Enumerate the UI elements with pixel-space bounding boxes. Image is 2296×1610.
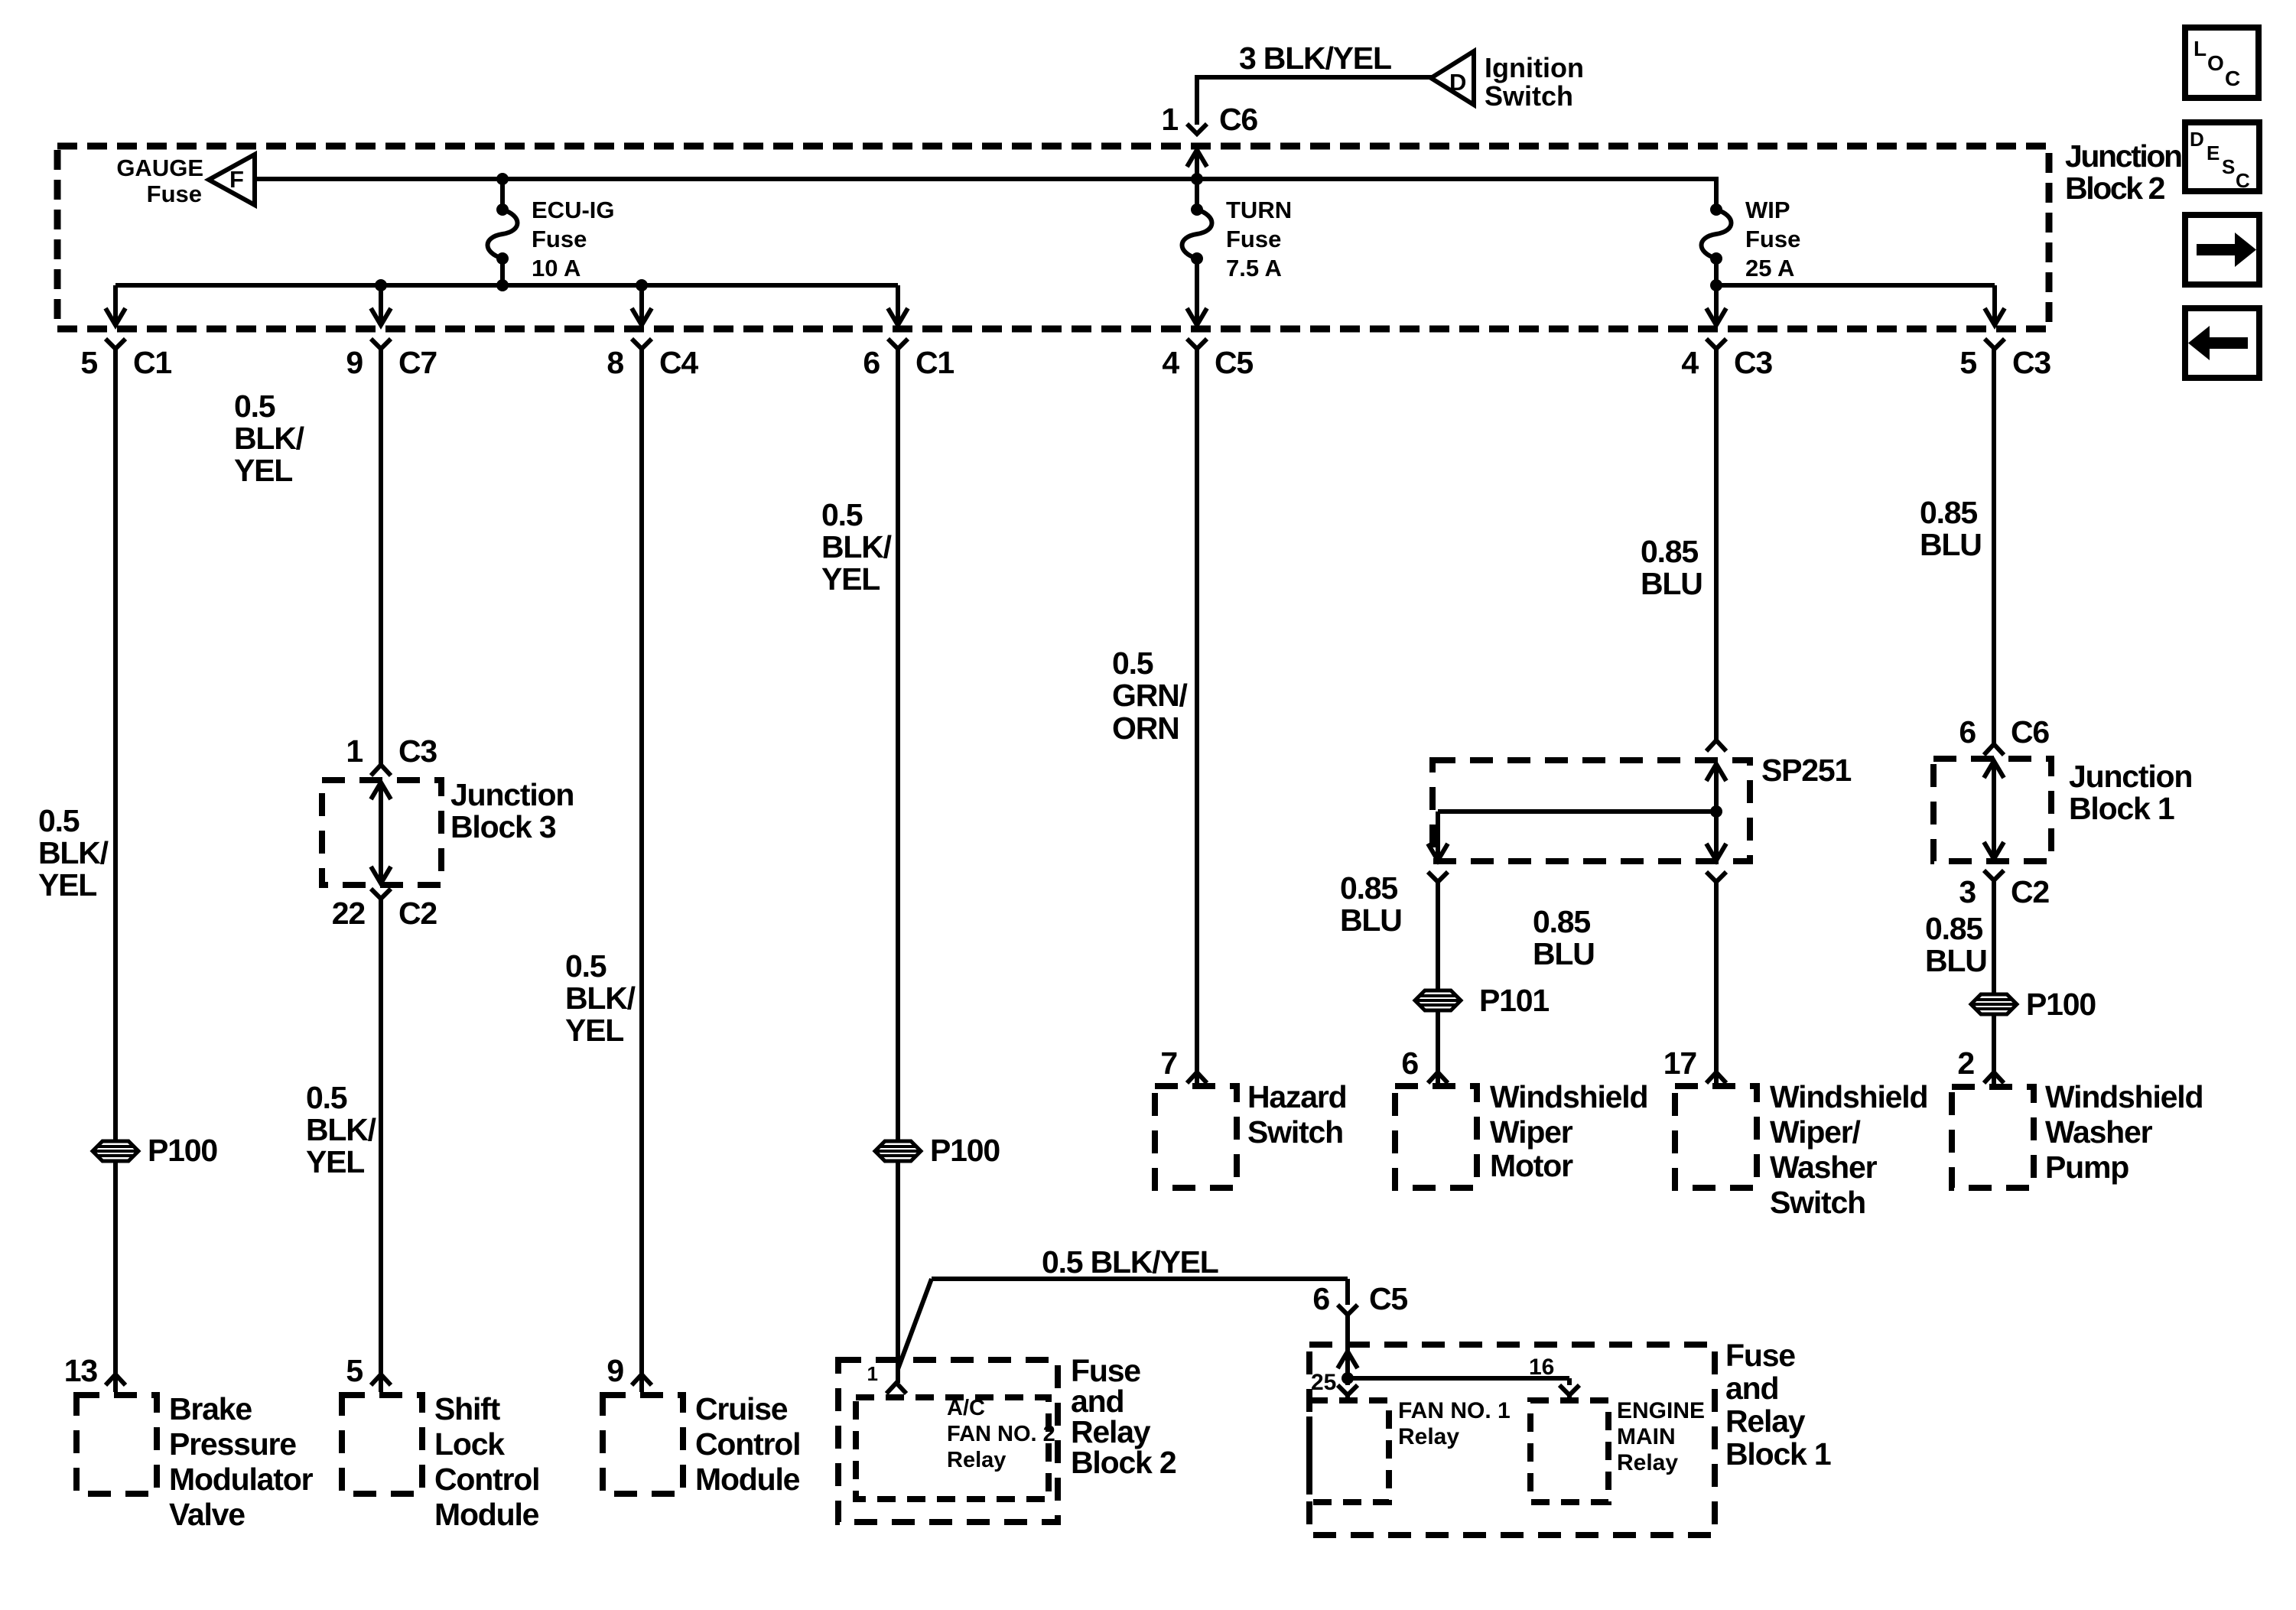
svg-text:13: 13 [64,1353,98,1388]
svg-text:Modulator: Modulator [169,1462,314,1497]
svg-text:L: L [2194,37,2207,60]
svg-text:10 A: 10 A [532,255,581,281]
svg-text:C7: C7 [398,345,437,380]
svg-text:C3: C3 [1734,345,1772,380]
A/C fan no 2 relay box [856,1397,1049,1499]
wire drop 5 C1 [113,285,118,325]
svg-text:and: and [1725,1371,1778,1406]
arrow into block 1 [1338,1351,1358,1368]
svg-text:Junction: Junction [2069,759,2192,794]
pigtail P100 col8 [1971,994,2017,1014]
svg-text:ENGINE: ENGINE [1617,1398,1705,1423]
fuse and relay block 2 outer box [838,1360,1058,1522]
arrow 4 C3 drop [1706,308,1726,325]
svg-text:Ignition: Ignition [1485,52,1584,83]
svg-text:C5: C5 [1369,1281,1407,1316]
svg-text:Fuse: Fuse [1226,226,1281,252]
arrow out of junction block 3 [371,867,391,883]
connector 6 C6 [1984,744,2004,755]
svg-text:0.5: 0.5 [565,948,607,984]
svg-text:0.85: 0.85 [1533,904,1590,939]
svg-text:3 BLK/YEL: 3 BLK/YEL [1239,41,1391,76]
svg-text:FAN NO. 2: FAN NO. 2 [947,1422,1055,1446]
svg-text:SP251: SP251 [1761,753,1851,788]
svg-text:1: 1 [346,733,363,769]
engine main relay box [1530,1400,1608,1502]
wire P100 to relay [896,1161,900,1383]
wire drop 9 C7 [379,285,383,325]
svg-text:C1: C1 [915,345,954,380]
svg-text:S: S [2222,155,2235,178]
svg-text:P100: P100 [930,1133,1000,1168]
fuse and relay block 1 outer box [1309,1345,1715,1535]
svg-text:BLK/: BLK/ [306,1112,376,1147]
connector 4 C3 [1706,339,1726,349]
svg-text:Switch: Switch [1770,1185,1865,1220]
connector 1 C6 [1187,124,1207,134]
node GAUGE bus / ECU-IG [496,173,509,185]
svg-text:Relay: Relay [1617,1450,1678,1475]
svg-text:YEL: YEL [306,1144,364,1179]
svg-text:Lock: Lock [434,1426,505,1462]
svg-text:0.85: 0.85 [1920,495,1977,530]
svg-text:Fuse: Fuse [1725,1338,1795,1373]
svg-text:D: D [2190,128,2204,151]
windshield wiper motor box [1395,1086,1477,1188]
svg-text:BLU: BLU [1340,903,1402,938]
wire ignition switch to 1 C6 [1197,75,1433,80]
svg-text:Junction: Junction [2065,138,2181,174]
svg-text:BLK/: BLK/ [234,421,304,456]
svg-text:GAUGE: GAUGE [116,154,203,181]
connector into A/C fan relay [886,1383,906,1394]
wire drop 6 C1 [896,285,900,325]
connector 3 C2 [1984,870,2004,880]
wire 9 C7 down [379,349,383,764]
fuse ECU-IG 10A [500,179,505,210]
svg-text:0.5: 0.5 [234,389,275,424]
wire GAUGE feed bus [255,177,1716,181]
fan no 1 relay box [1309,1400,1389,1502]
cruise control module box [603,1395,683,1494]
node WIP fuse output [1710,279,1722,291]
arrow 5 C1 drop [106,308,125,325]
svg-text:1: 1 [867,1362,878,1385]
svg-text:C6: C6 [1219,102,1257,137]
svg-text:P100: P100 [2026,987,2096,1022]
wire 4 C5 down [1195,349,1199,1072]
svg-text:YEL: YEL [565,1013,623,1048]
svg-text:MAIN: MAIN [1617,1424,1676,1449]
svg-text:D: D [1449,69,1466,96]
svg-text:Wiper: Wiper [1490,1114,1573,1150]
svg-text:Relay: Relay [1725,1403,1806,1439]
svg-text:6: 6 [863,345,880,380]
connector pin 16 [1559,1385,1579,1395]
arrow SP251 out right [1706,844,1726,860]
node block1 splice [1342,1372,1354,1384]
splice SP251 box [1433,760,1750,861]
svg-text:BLK/: BLK/ [821,529,892,564]
svg-text:Switch: Switch [1247,1114,1343,1150]
svg-text:Relay: Relay [1398,1424,1459,1449]
connector 9 C7 [371,339,391,349]
svg-text:5: 5 [80,345,97,380]
arrow 5 C3 drop [1985,308,2005,325]
wire splice to pin 16 [1348,1376,1569,1381]
svg-text:Pressure: Pressure [169,1426,296,1462]
svg-text:3: 3 [1959,874,1976,909]
svg-text:0.85: 0.85 [1925,911,1982,946]
svg-text:25 A: 25 A [1745,255,1794,281]
svg-text:Cruise: Cruise [695,1391,788,1426]
junction block 3 box [322,780,441,885]
svg-text:C2: C2 [398,896,437,931]
arrow 6 C1 drop [888,308,908,325]
pigtail P100 col1 [93,1141,138,1161]
svg-text:0.85: 0.85 [1641,534,1698,569]
connector into wiper washer switch [1706,1072,1726,1083]
wire to P101 [1436,882,1440,990]
svg-text:C: C [2236,169,2250,192]
svg-text:C3: C3 [2012,345,2050,380]
wire drop 8 C4 [639,285,644,325]
svg-text:9: 9 [607,1353,623,1388]
svg-text:Windshield: Windshield [2045,1079,2203,1114]
svg-text:YEL: YEL [234,453,292,488]
svg-text:4: 4 [1162,345,1179,380]
shift lock control module box [342,1395,422,1494]
svg-text:A/C: A/C [947,1396,985,1420]
svg-text:ECU-IG: ECU-IG [532,197,615,223]
svg-text:4: 4 [1681,345,1699,380]
pigtail P101 [1415,990,1461,1010]
legend back arrow box [2185,308,2259,378]
wire through junction block 3 [379,782,383,883]
svg-text:17: 17 [1663,1046,1696,1081]
wire jumper horizontal [932,1277,1348,1281]
connector into hazard switch [1187,1072,1207,1083]
svg-text:GRN/: GRN/ [1112,678,1188,713]
svg-text:Fuse: Fuse [147,181,202,207]
junction block 2 dashed border [57,146,2049,329]
connector pin 25 [1338,1385,1358,1395]
svg-text:Wiper/: Wiper/ [1770,1114,1861,1150]
legend DESC box [2185,122,2259,191]
svg-text:Windshield: Windshield [1490,1079,1647,1114]
wire 5 C1 down [113,349,118,1141]
svg-text:C5: C5 [1215,345,1253,380]
wire splice to pin 25 [1345,1378,1350,1385]
ignition switch triangle connector D [1431,51,1474,105]
svg-text:ORN: ORN [1112,711,1179,746]
svg-text:BLK/: BLK/ [38,835,109,870]
svg-text:0.5: 0.5 [1112,646,1153,681]
fuse WIP 25A [1714,177,1719,210]
wire SP251 branch [1438,809,1716,814]
connector into shift lock [371,1374,391,1385]
svg-text:Valve: Valve [169,1497,245,1532]
svg-text:6: 6 [1312,1281,1329,1316]
svg-text:Hazard: Hazard [1247,1079,1347,1114]
connector 5 C1 [106,339,125,349]
svg-text:YEL: YEL [821,561,880,597]
connector into washer pump [1984,1072,2004,1083]
svg-text:Block 3: Block 3 [450,809,556,844]
connector into cruise module [632,1374,652,1385]
brake pressure modulator valve box [76,1395,157,1494]
fuse TURN 7.5A [1195,179,1199,210]
wire WIP to 5 C3 [1716,283,1995,288]
arrow into junction block 3 [371,782,391,799]
svg-text:Pump: Pump [2045,1150,2129,1185]
svg-text:8: 8 [607,345,623,380]
arrow into junction block 2 [1187,150,1207,167]
svg-text:Block 2: Block 2 [1071,1445,1176,1480]
svg-text:1: 1 [1161,102,1178,137]
arrow into junction block 1 [1984,761,2004,778]
svg-text:0.5: 0.5 [38,803,80,838]
svg-text:Motor: Motor [1490,1148,1573,1183]
wire 22 C2 down [379,899,383,1374]
node SP251 [1710,805,1722,818]
svg-text:F: F [229,166,244,193]
arrow 8 C4 drop [632,308,652,325]
junction block 1 box [1933,759,2051,861]
svg-text:C: C [2225,67,2240,90]
svg-text:5: 5 [346,1353,363,1388]
wire WIP to 4 C3 [1714,285,1719,325]
svg-text:BLK/: BLK/ [565,981,636,1016]
svg-text:BLU: BLU [1920,527,1982,562]
svg-text:Control: Control [695,1426,800,1462]
arrow TURN drop [1187,308,1207,325]
wire 4 C3 down [1714,349,1719,740]
svg-text:0.5 BLK/YEL: 0.5 BLK/YEL [1042,1244,1218,1280]
pigtail P100 col4 [875,1141,921,1161]
svg-text:25: 25 [1311,1370,1336,1395]
svg-text:Shift: Shift [434,1391,501,1426]
svg-text:6: 6 [1959,714,1976,750]
connector 6 C5 [1338,1305,1358,1315]
wire P101 to wiper motor [1436,1010,1440,1072]
legend LOC box [2185,28,2259,98]
svg-text:16: 16 [1529,1355,1554,1380]
svg-text:7: 7 [1160,1046,1177,1081]
svg-text:YEL: YEL [38,867,96,903]
wire P100 to valve [113,1161,118,1374]
svg-text:Module: Module [434,1497,539,1532]
svg-text:E: E [2207,141,2220,164]
wire to wiper washer switch [1714,882,1719,1072]
node bus / ECU-IG out [496,279,509,291]
svg-text:WIP: WIP [1745,197,1790,223]
svg-text:Switch: Switch [1485,80,1573,112]
svg-text:Brake: Brake [169,1391,252,1426]
svg-text:BLU: BLU [1533,936,1595,971]
connector into valve [106,1374,125,1385]
node bus / 9 C7 [375,279,387,291]
wire P100 to washer pump [1992,1014,1996,1072]
svg-text:0.5: 0.5 [306,1080,347,1115]
wire 6 C1 down [896,349,900,1141]
svg-text:Block 2: Block 2 [2065,171,2165,206]
svg-text:6: 6 [1401,1046,1418,1081]
connector 4 C5 [1187,339,1207,349]
svg-text:Washer: Washer [1770,1150,1878,1185]
node GAUGE bus / TURN [1191,173,1203,185]
svg-text:Module: Module [695,1462,800,1497]
connector 1 C3 [371,765,391,776]
connector 5 C3 [1985,339,2005,349]
wire 3 C2 down [1992,880,1996,994]
svg-text:Washer: Washer [2045,1114,2153,1150]
svg-text:0.5: 0.5 [821,497,863,532]
windshield washer pump box [1952,1087,2034,1188]
hazard switch box [1155,1086,1237,1188]
svg-text:Fuse: Fuse [1745,226,1800,252]
arrow 9 C7 drop [371,308,391,325]
svg-text:5: 5 [1959,345,1976,380]
wire branch diagonal [898,1279,932,1369]
legend forward arrow box [2185,215,2259,285]
connector below SP251 right [1706,872,1726,882]
svg-text:Control: Control [434,1462,539,1497]
svg-text:9: 9 [346,345,363,380]
svg-text:C2: C2 [2011,874,2049,909]
arrow out of junction block 1 [1984,842,2004,859]
connector into wiper motor [1428,1072,1448,1083]
wire 8 C4 down [639,349,644,1374]
arrow SP251 out left [1428,844,1448,860]
svg-text:C3: C3 [398,733,437,769]
svg-text:FAN NO. 1: FAN NO. 1 [1398,1398,1511,1423]
svg-text:BLU: BLU [1641,566,1702,601]
svg-text:C1: C1 [133,345,171,380]
svg-text:Block 1: Block 1 [1725,1436,1831,1472]
svg-text:O: O [2207,51,2224,75]
svg-text:P101: P101 [1479,983,1549,1018]
arrow into SP251 [1706,764,1726,781]
windshield wiper washer switch box [1675,1086,1757,1188]
svg-text:22: 22 [332,896,366,931]
svg-text:Fuse: Fuse [532,226,587,252]
wire 6 C5 into block 1 [1345,1315,1350,1351]
svg-text:BLU: BLU [1925,943,1987,978]
svg-text:P100: P100 [148,1133,217,1168]
svg-text:0.85: 0.85 [1340,870,1397,906]
node bus / 8 C4 [636,279,648,291]
svg-text:C4: C4 [659,345,698,380]
svg-text:Relay: Relay [947,1448,1006,1472]
svg-text:Windshield: Windshield [1770,1079,1927,1114]
svg-text:2: 2 [1957,1046,1974,1081]
svg-text:Block 1: Block 1 [2069,791,2174,826]
svg-text:Junction: Junction [450,777,574,812]
wire 5 C3 down [1992,349,1996,744]
connector below SP251 left [1428,872,1448,882]
connector 8 C4 [632,339,652,349]
svg-text:7.5 A: 7.5 A [1226,255,1282,281]
connector 22 C2 [371,889,391,899]
connector 6 C1 [888,339,908,349]
connector into SP251 [1706,740,1726,751]
svg-text:C6: C6 [2011,714,2049,750]
svg-text:TURN: TURN [1226,197,1292,223]
GAUGE fuse triangle connector F [209,154,255,205]
wire ECU-IG output bus [115,283,898,288]
